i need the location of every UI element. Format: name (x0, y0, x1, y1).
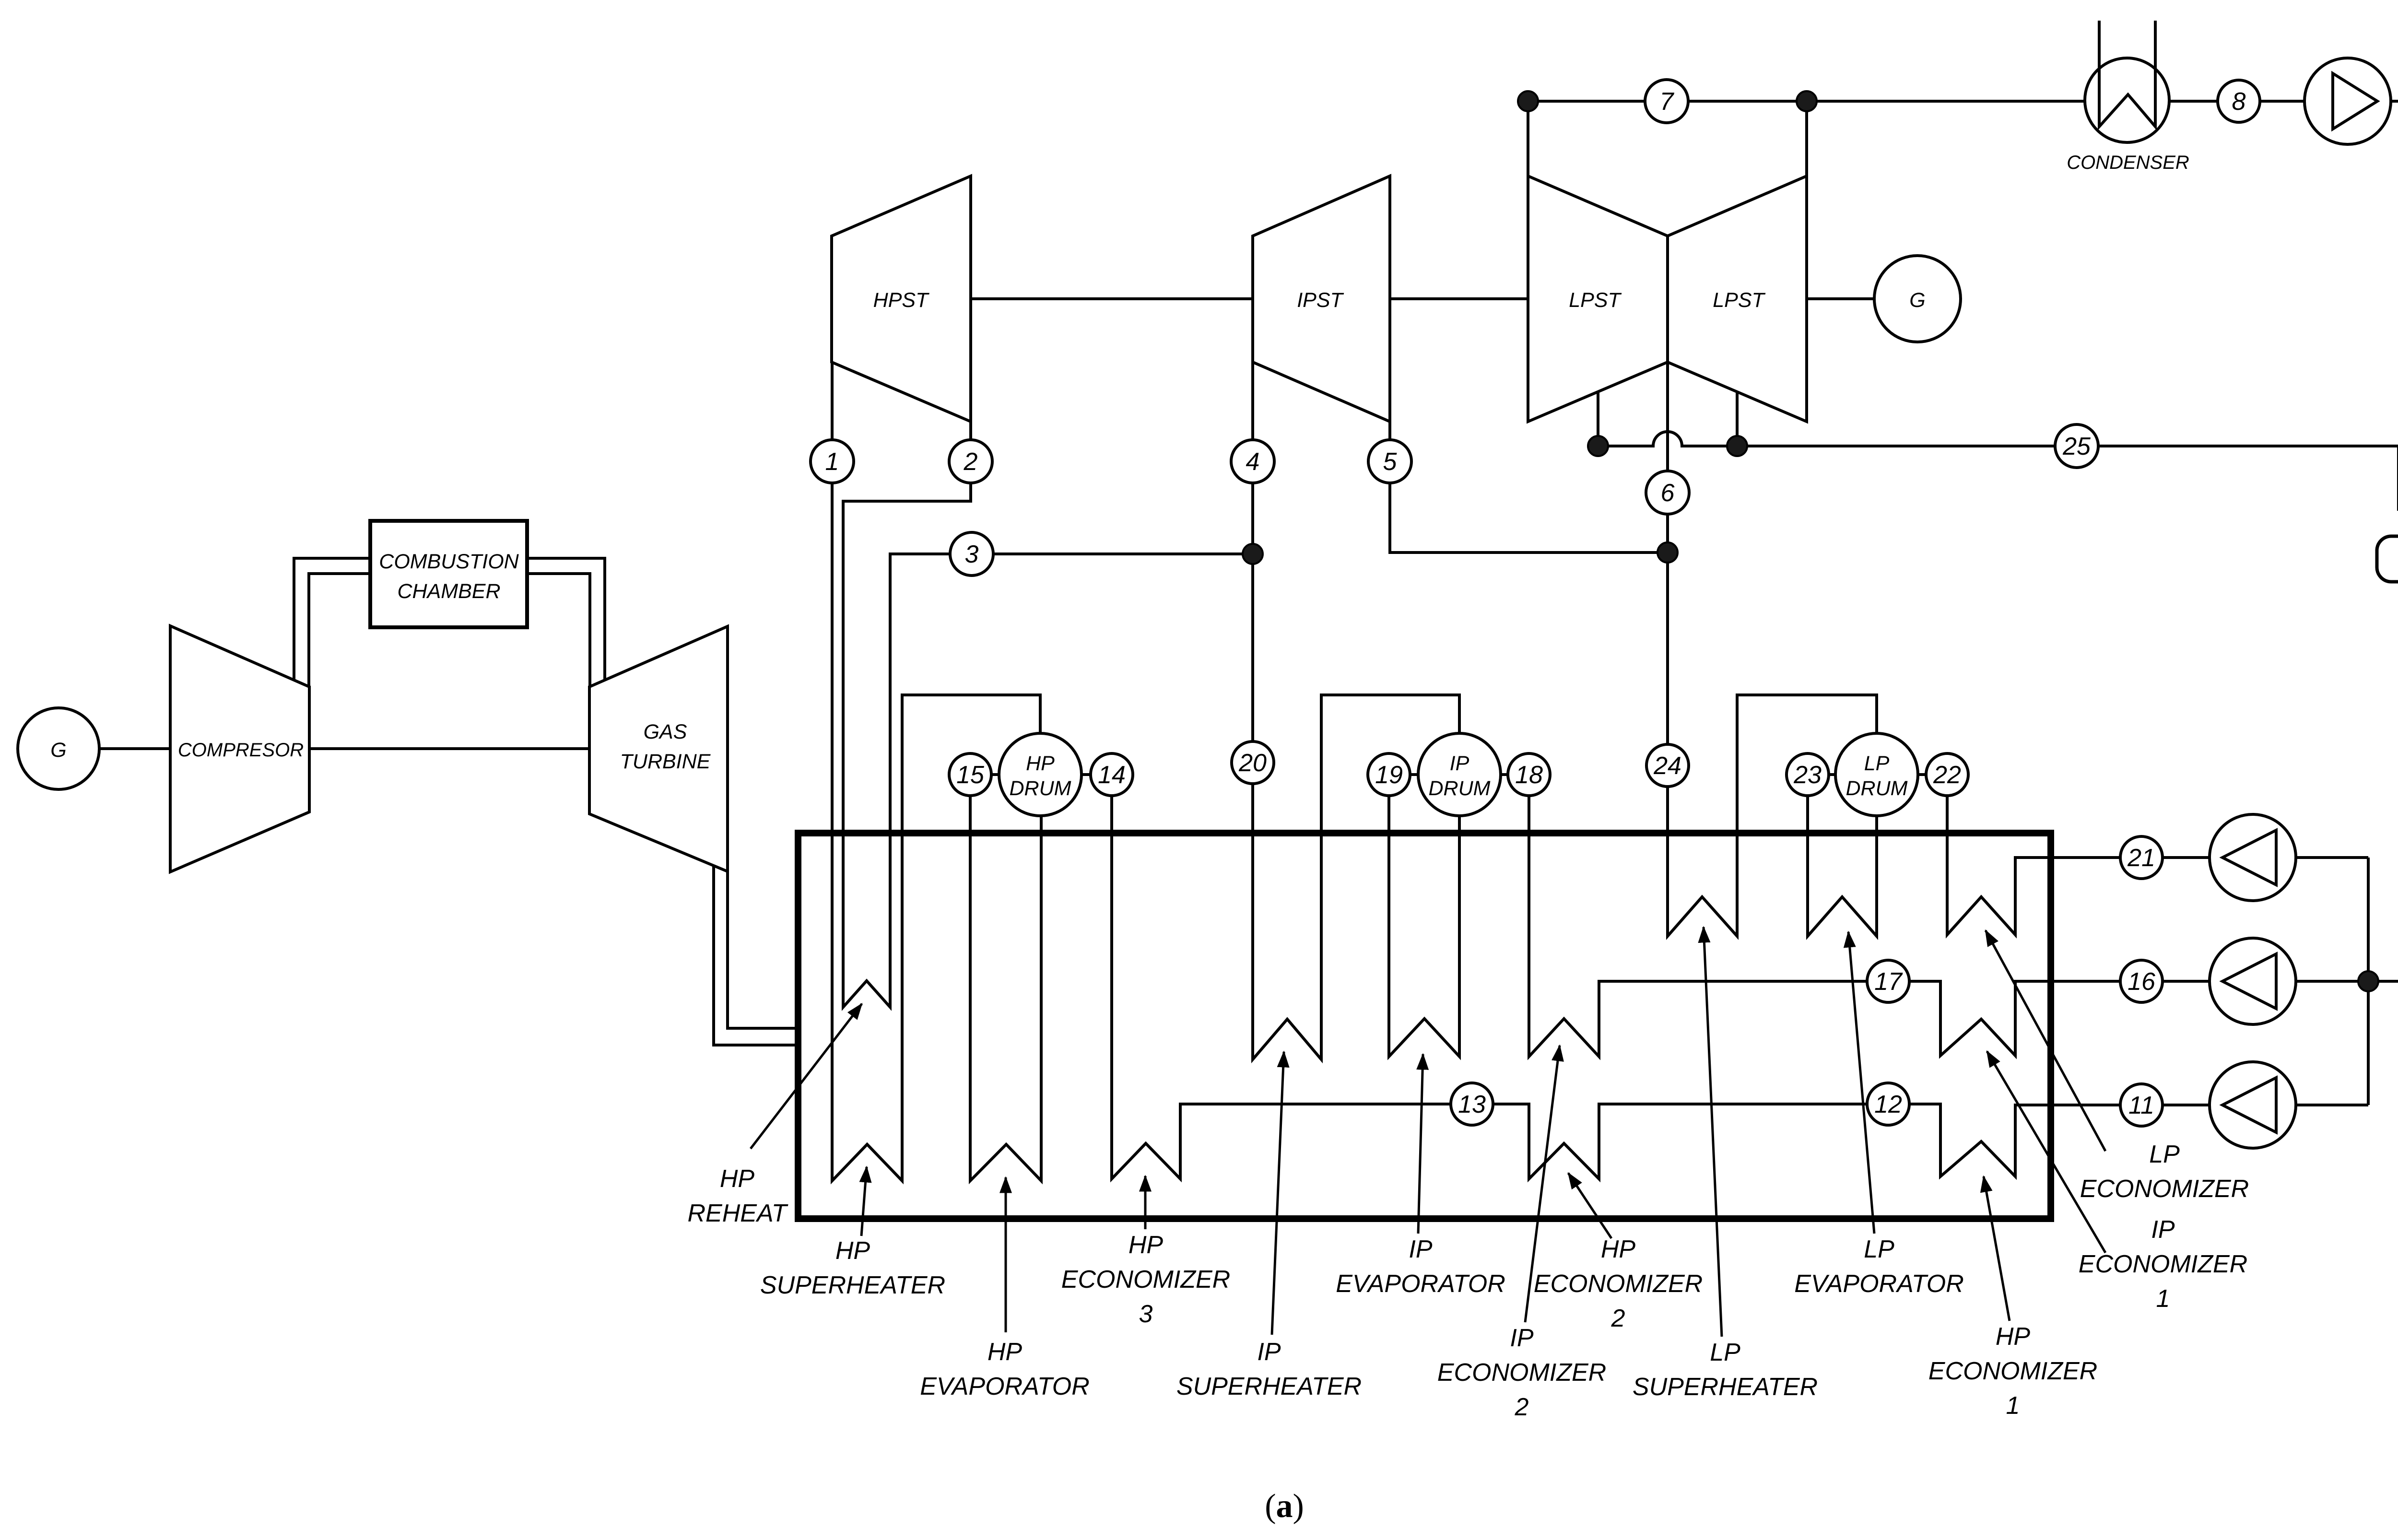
pipe: gas turbine exhaust duct to HRSG (inner) (728, 871, 798, 1028)
wire+coil: HP economizer 3 + line 13 + HP economizer 2 + line 12 + HP economizer 1 + line 11 to feed pump (1112, 775, 2368, 1179)
arrow IP economizer 1 (1987, 1051, 2105, 1253)
node 8 (2218, 80, 2260, 122)
arrow IP superheater (1272, 1052, 1284, 1335)
combustion chamber (370, 521, 527, 627)
node 14 (1091, 753, 1133, 796)
wire: LPST exhaust left to condenser line (1527, 101, 1529, 176)
node 24 (1646, 744, 1689, 787)
feed pump 16 (2210, 938, 2296, 1024)
node 7 (1645, 80, 1688, 123)
pipe: gas turbine exhaust duct to HRSG (outer) (714, 866, 798, 1045)
svg-text:18: 18 (1515, 761, 1543, 789)
node 22 (1926, 753, 1968, 796)
pipe: compressor outlet to combustion chamber (outer) (294, 558, 370, 681)
svg-text:13: 13 (1458, 1091, 1486, 1118)
svg-text:DRUM: DRUM (1429, 777, 1491, 800)
svg-text:SUPERHEATER: SUPERHEATER (760, 1271, 945, 1299)
svg-text:G: G (1909, 289, 1925, 312)
svg-text:G: G (50, 739, 66, 762)
svg-text:3: 3 (1139, 1300, 1153, 1328)
HP drum (999, 733, 1081, 816)
svg-text:HPST: HPST (873, 289, 929, 312)
svg-text:LP: LP (1864, 752, 1890, 775)
node 4 (1231, 440, 1274, 483)
node 11 (2120, 1084, 2163, 1126)
svg-text:1: 1 (2156, 1285, 2170, 1313)
svg-text:19: 19 (1375, 761, 1403, 789)
wire+coil: HP reheat circuit (node 2 to coil to node 3 line) (843, 461, 1253, 1007)
arrow HP superheater (861, 1167, 867, 1236)
svg-text:IP: IP (1257, 1338, 1281, 1366)
svg-text:11: 11 (2128, 1092, 2154, 1119)
feed pump 21 (2210, 814, 2296, 901)
wire: node 18 stub to IP drum (1459, 773, 1529, 776)
condensate pump (2304, 58, 2391, 144)
wire: node 15 stub to HP drum (970, 773, 1040, 776)
wire: HPST inlet from node 1 (831, 362, 834, 461)
wire: condenser line node 7 (LPST exhaust header) (1528, 100, 2085, 103)
svg-text:EVAPORATOR: EVAPORATOR (1794, 1270, 1964, 1298)
svg-text:3: 3 (965, 541, 979, 568)
wire: feed pump discharge bus (2367, 858, 2370, 1105)
svg-text:2: 2 (964, 448, 978, 476)
node 3 (950, 532, 993, 576)
svg-text:14: 14 (1098, 761, 1126, 789)
wire: LPST centre extraction down through node 6 (1666, 362, 1669, 553)
svg-text:ECONOMIZER: ECONOMIZER (2080, 1175, 2249, 1203)
wire: LPST exhaust right to condenser line (1805, 101, 1808, 176)
HRSG casing box (798, 833, 2051, 1219)
wire+coil: LP superheater circuit (node 6 line down through node 24, coil, LP drum top) (1668, 553, 1877, 936)
svg-text:24: 24 (1653, 752, 1681, 780)
node 23 (1787, 753, 1829, 796)
junction reheat to IPST line (1243, 544, 1263, 564)
pipe: combustion chamber to gas turbine (inner) (527, 574, 590, 688)
svg-text:6: 6 (1661, 479, 1675, 507)
wire+coil: LP economizer (node 22 down) + line 21 to feed pump (1947, 775, 2368, 935)
svg-text:LP: LP (1864, 1235, 1894, 1263)
svg-text:16: 16 (2128, 968, 2155, 996)
svg-text:23: 23 (1793, 761, 1822, 789)
wire: LPST right bleed to drain line (1736, 392, 1739, 446)
wire: node 19 stub to IP drum (1389, 773, 1459, 776)
svg-text:CHAMBER: CHAMBER (397, 580, 500, 603)
wire: shaft generator G1 to compressor (99, 747, 170, 750)
svg-text:2: 2 (1515, 1393, 1529, 1421)
wire: node 23 stub to LP drum (1808, 773, 1877, 776)
wire: HPST exhaust to node 2 (969, 422, 972, 461)
IPST turbine (1253, 176, 1390, 422)
coil: LP evaporator (node 23 and LP drum bottom) (1808, 775, 1877, 936)
svg-text:ECONOMIZER: ECONOMIZER (1928, 1357, 2097, 1385)
wire+coil: IP superheater circuit (node 4 line down through node 20, coil, IP drum top) (1253, 362, 1459, 1059)
node 13 (1451, 1083, 1493, 1125)
svg-text:ECONOMIZER: ECONOMIZER (1061, 1266, 1230, 1293)
condenser (2085, 58, 2169, 142)
gas turbine (589, 626, 728, 871)
junction condenser line left (1518, 91, 1538, 111)
svg-text:ECONOMIZER: ECONOMIZER (1437, 1359, 1606, 1387)
svg-text:21: 21 (2127, 844, 2155, 872)
generator G2 (1874, 256, 1961, 342)
node 1 (811, 440, 854, 483)
svg-text:IPST: IPST (1297, 289, 1344, 312)
junction IPST/LPST extraction (1657, 542, 1678, 563)
wire: node 14 stub to HP drum (1040, 773, 1112, 776)
LPST turbine left half (1528, 176, 1668, 422)
svg-text:IP: IP (1510, 1324, 1533, 1352)
svg-text:HP: HP (1601, 1235, 1636, 1263)
generator G1 (18, 708, 99, 789)
svg-text:22: 22 (1933, 761, 1961, 789)
deaerator body (2377, 536, 2398, 582)
svg-text:CONDENSER: CONDENSER (2067, 152, 2189, 173)
node 12 (1867, 1083, 1909, 1125)
svg-text:HP: HP (1128, 1231, 1164, 1259)
HPST turbine (832, 176, 971, 422)
svg-text:HP: HP (1996, 1323, 2031, 1351)
svg-text:LP: LP (1710, 1339, 1740, 1366)
arrow HP economizer 2 (1568, 1173, 1611, 1238)
junction feed pump bus (2358, 971, 2378, 991)
wire: condenser outlet to node 8, pump, node 9 (2169, 100, 2398, 103)
svg-text:ECONOMIZER: ECONOMIZER (2079, 1250, 2247, 1278)
wire: shaft LPST to generator G2 (1807, 297, 1874, 300)
svg-text:4: 4 (1246, 448, 1260, 476)
wire: shaft compressor to gas turbine (309, 747, 589, 750)
svg-text:EVAPORATOR: EVAPORATOR (1336, 1270, 1505, 1298)
wire: shaft HPST to IPST (971, 297, 1253, 300)
IP drum (1418, 733, 1501, 816)
svg-text:ECONOMIZER: ECONOMIZER (1534, 1270, 1703, 1298)
arrow HP economizer 1 (1984, 1176, 2010, 1321)
wire: IPST exhaust to node 5 and over to LP line junction (1390, 422, 1668, 553)
svg-text:COMBUSTION: COMBUSTION (379, 550, 519, 573)
arrow IP evaporator (1418, 1054, 1423, 1234)
pipe: combustion chamber to gas turbine (outer) (527, 558, 605, 681)
node 20 (1232, 741, 1274, 784)
wire: LPST left bleed to drain line (1597, 392, 1599, 446)
node 2 (949, 440, 992, 483)
svg-text:REHEAT: REHEAT (687, 1199, 788, 1227)
junction drain line right (1727, 436, 1747, 456)
svg-text:7: 7 (1660, 88, 1675, 116)
svg-text:SUPERHEATER: SUPERHEATER (1633, 1373, 1818, 1401)
svg-text:(a): (a) (1265, 1488, 1304, 1525)
wire: LPST drain line with hop to node 25 and deaerator (1598, 432, 2398, 509)
svg-text:SUPERHEATER: SUPERHEATER (1176, 1373, 1362, 1400)
feed pump 11 (2210, 1062, 2296, 1148)
coil: IP evaporator (node 19 and IP drum bottom) (1389, 775, 1459, 1057)
wire+coil: HP superheater circuit (HP drum top to node 1/HPST) (832, 362, 1040, 1181)
svg-text:17: 17 (1874, 968, 1903, 996)
svg-text:HP: HP (987, 1338, 1023, 1366)
svg-text:IP: IP (1409, 1235, 1432, 1263)
node 19 (1368, 753, 1410, 796)
pipe: compressor outlet to combustion chamber (inner) (309, 574, 370, 688)
svg-text:IP: IP (2151, 1216, 2175, 1244)
arrow HP evaporator (1005, 1177, 1007, 1332)
svg-text:EVAPORATOR: EVAPORATOR (920, 1373, 1090, 1400)
svg-text:HP: HP (1026, 752, 1055, 775)
junction condenser line right (1797, 91, 1817, 111)
svg-text:DRUM: DRUM (1846, 777, 1908, 800)
svg-text:IP: IP (1450, 752, 1469, 775)
svg-text:12: 12 (1874, 1091, 1902, 1118)
svg-text:DRUM: DRUM (1010, 777, 1071, 800)
svg-text:8: 8 (2232, 88, 2246, 116)
svg-text:HP: HP (720, 1165, 755, 1193)
svg-text:20: 20 (1238, 749, 1267, 777)
node 18 (1508, 753, 1550, 796)
LPST turbine right half (1668, 176, 1807, 422)
svg-text:LPST: LPST (1569, 289, 1622, 312)
svg-text:5: 5 (1383, 448, 1398, 476)
wire: deaerator through node 10 down and left to feed pump bus (2368, 582, 2398, 981)
compressor (170, 626, 309, 872)
svg-text:COMPRESOR: COMPRESOR (178, 740, 304, 761)
svg-text:GAS: GAS (644, 720, 687, 743)
arrow IP economizer 2 (1525, 1046, 1560, 1322)
node 5 (1368, 440, 1411, 483)
svg-text:2: 2 (1611, 1305, 1625, 1332)
node 25 (2055, 424, 2098, 468)
arrow HP reheat (751, 1004, 862, 1149)
svg-text:TURBINE: TURBINE (620, 750, 711, 773)
svg-text:1: 1 (2006, 1392, 2020, 1420)
node 16 (2120, 960, 2163, 1002)
wire: node 22 stub to LP drum (1877, 773, 1947, 776)
node 21 (2120, 836, 2163, 879)
arrow LP superheater (1704, 927, 1722, 1337)
coil: HP evaporator (node 15 and HP drum bottom) (970, 775, 1041, 1181)
arrow LP economizer (1986, 930, 2105, 1151)
wire+coil: IP economizer 2 (node 18 down) + line 17 + IP economizer 1 + line 16 to feed pump (1529, 775, 2368, 1057)
svg-text:25: 25 (2062, 433, 2091, 460)
junction drain line left (1588, 436, 1608, 456)
LP drum (1835, 733, 1918, 816)
node 15 (949, 753, 991, 796)
svg-text:15: 15 (956, 761, 985, 789)
node 17 (1867, 960, 1909, 1002)
arrow HP economizer 3 (1144, 1176, 1147, 1229)
svg-text:HP: HP (835, 1237, 870, 1265)
node 6 (1646, 471, 1689, 514)
wire: shaft IPST to LPST (1390, 297, 1528, 300)
svg-text:LPST: LPST (1713, 289, 1765, 312)
arrow LP evaporator (1848, 932, 1874, 1234)
svg-text:LP: LP (2149, 1140, 2180, 1168)
svg-text:1: 1 (825, 448, 839, 476)
